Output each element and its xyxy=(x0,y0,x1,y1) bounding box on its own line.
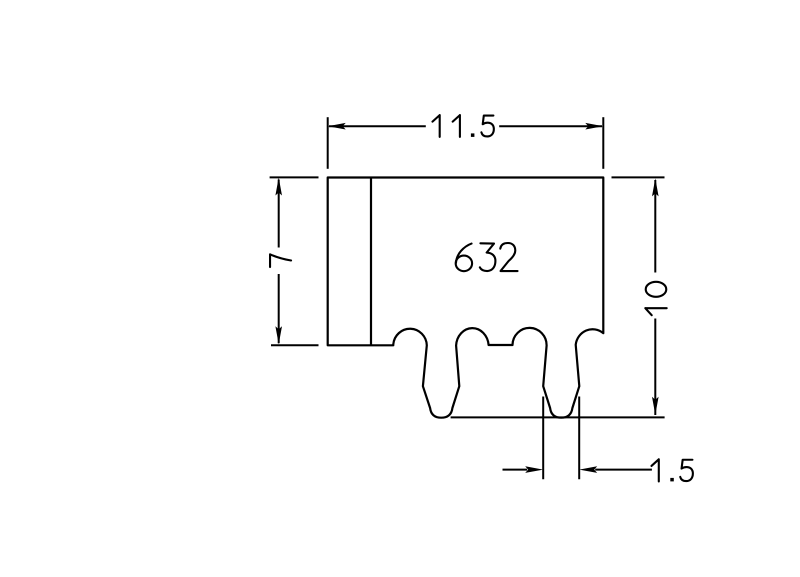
inner vertical line of body xyxy=(370,178,372,346)
dimension 11.5 text xyxy=(433,115,494,137)
dimension 11.5 arrow right xyxy=(585,123,603,130)
part outline profile 632 xyxy=(328,178,604,418)
dimension 7 extension line top xyxy=(270,176,319,178)
dimension 11.5 extension line left xyxy=(327,117,329,169)
dimension 1.5 arrow pointing right xyxy=(525,466,543,473)
dimension 7 line lower segment xyxy=(278,274,280,343)
dimension 7 line upper segment xyxy=(278,180,280,248)
dimension 1.5 extension line left xyxy=(542,397,544,480)
dimension 10 arrow up xyxy=(652,178,659,196)
dimension 11.5 extension line right xyxy=(602,117,604,169)
dimension 1.5 line right tail xyxy=(595,469,652,471)
dimension 10 line upper segment xyxy=(654,180,656,273)
dimension 1.5 extension line right xyxy=(578,397,580,480)
dimension 11.5 line left segment xyxy=(329,125,426,127)
part number 632 text xyxy=(456,243,518,271)
dimension 11.5 line right segment xyxy=(499,125,602,127)
dimension 11.5 arrow left xyxy=(328,123,346,130)
dimension 10 text xyxy=(645,282,666,315)
dimension 7 arrow down xyxy=(275,326,282,344)
dimension 10 extension line bottom xyxy=(451,416,665,418)
dimension 1.5 line left tail xyxy=(503,469,528,471)
dimension 10 extension line top xyxy=(612,176,665,178)
dimension 7 arrow up xyxy=(275,178,282,196)
dimension 7 text xyxy=(270,254,291,267)
dimension 7 extension line bottom xyxy=(271,344,319,346)
dimension 10 line lower segment xyxy=(654,319,656,416)
dimension 1.5 text xyxy=(651,459,692,481)
dimension 1.5 arrow pointing left xyxy=(579,466,597,473)
dimension 10 arrow down xyxy=(652,397,659,415)
